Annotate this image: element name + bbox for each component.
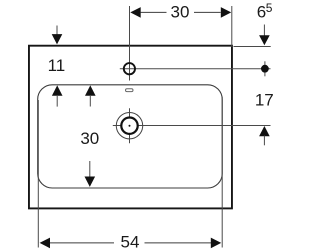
drain vertical centerline [129, 108, 131, 143]
arrow down dim 30 vertical [85, 177, 96, 187]
tap hole [124, 63, 135, 74]
arrow tail 11 lower [56, 95, 58, 107]
extension line right of dim 30 top [231, 6, 233, 47]
arrow up 17 [259, 126, 270, 136]
arrow tail 6.5 [263, 25, 265, 37]
svg-text:30: 30 [171, 2, 190, 21]
arrow left of dim 54 [40, 238, 50, 249]
arrow left of dim 30 top [130, 7, 140, 18]
drain center dot [129, 125, 131, 127]
drain horizontal centerline [113, 125, 271, 127]
reference dot tick [264, 61, 266, 76]
svg-text:11: 11 [48, 56, 66, 75]
arrow right of dim 54 [211, 238, 221, 249]
arrow tail dim 30 vertical top [89, 95, 91, 107]
inner bowl outline [38, 85, 223, 188]
svg-text:30: 30 [80, 129, 99, 148]
arrow up 11 lower [52, 85, 63, 95]
arrow down 6.5 [259, 35, 270, 45]
dimension line 54 right segment [145, 242, 212, 244]
arrow down 11 upper [52, 34, 63, 44]
extension line left of dim 54 [37, 100, 39, 248]
svg-text:54: 54 [121, 232, 140, 250]
extension line top edge right [234, 46, 271, 48]
arrow tail 11 upper [56, 26, 58, 36]
dimension line 30 top left segment [141, 11, 167, 13]
drain inner circle [121, 118, 137, 134]
arrow tail dim 30 vertical bottom [89, 161, 91, 178]
washbasin outer outline [29, 46, 232, 209]
dimension line 54 left segment [50, 242, 115, 244]
extension line left of dim 30 top / tap hole vertical centerline [129, 6, 131, 81]
reference dot [261, 65, 269, 73]
extension line right of dim 54 [221, 97, 223, 248]
arrow right of dim 30 top [221, 7, 231, 18]
svg-text:17: 17 [255, 90, 274, 109]
drain outer circle [116, 113, 142, 139]
tap hole horizontal centerline [120, 68, 271, 70]
arrow tail 17 [263, 136, 265, 146]
svg-text:5: 5 [266, 1, 273, 15]
overflow slot [126, 89, 134, 92]
arrow up dim 30 vertical [85, 85, 96, 95]
dimension line 30 top right segment [194, 11, 221, 13]
